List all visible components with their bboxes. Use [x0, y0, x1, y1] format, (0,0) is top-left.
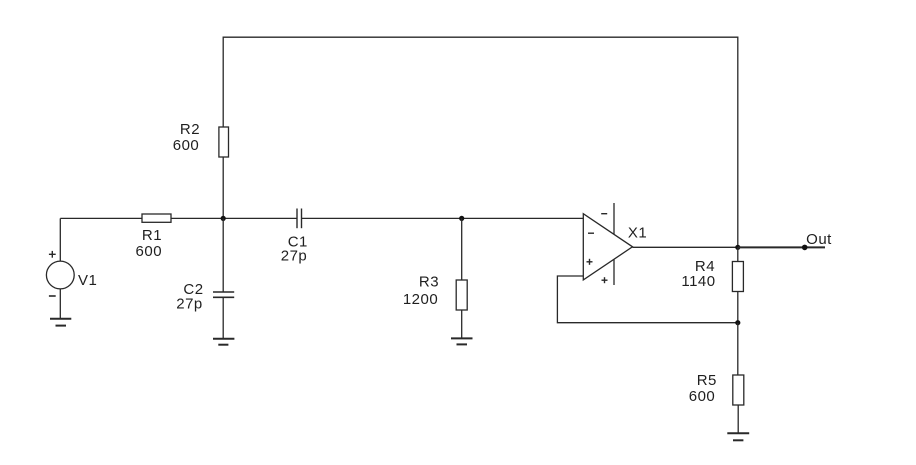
- wire top feedback rail: [223, 37, 738, 247]
- svg-text:1140: 1140: [681, 273, 715, 290]
- svg-text:X1: X1: [628, 225, 647, 242]
- capacitor C1: [281, 209, 308, 265]
- ground (V1): [50, 319, 71, 326]
- node D junction dot: [735, 245, 740, 250]
- svg-text:R2: R2: [180, 121, 200, 138]
- resistor R3: [403, 274, 467, 311]
- ground (R5): [727, 433, 749, 440]
- wire Out net: [738, 246, 825, 248]
- source V1: [46, 251, 97, 296]
- wire R5 to ground: [737, 405, 739, 433]
- node B junction dot: [459, 216, 464, 221]
- wire R2 bottom to node A: [222, 157, 224, 218]
- svg-text:27p: 27p: [281, 247, 308, 264]
- svg-text:600: 600: [173, 137, 200, 154]
- wire V1 to ground: [59, 289, 61, 319]
- svg-text:V1: V1: [78, 272, 97, 289]
- wire feedback from non-inverting input to node C: [557, 276, 737, 323]
- wire C2 to ground: [222, 297, 224, 338]
- wire R4 to node C: [737, 292, 739, 323]
- svg-text:R5: R5: [697, 372, 717, 389]
- svg-text:R1: R1: [142, 227, 162, 244]
- resistor R1: [136, 214, 171, 260]
- node A junction dot: [221, 216, 226, 221]
- capacitor C2: [176, 281, 234, 313]
- wire node B to R3: [461, 218, 463, 280]
- node C junction dot: [735, 320, 740, 325]
- svg-text:600: 600: [689, 388, 716, 405]
- resistor R2: [173, 121, 229, 157]
- resistor R5: [689, 372, 744, 405]
- wire node C to R5: [737, 323, 739, 375]
- svg-text:1200: 1200: [403, 291, 438, 308]
- wire op-amp output to node D: [633, 246, 738, 248]
- pin V- stub (bottom) of X1: [602, 260, 615, 285]
- svg-text:Out: Out: [806, 231, 832, 248]
- wire R3 to ground: [461, 310, 463, 338]
- svg-text:600: 600: [136, 243, 163, 260]
- wire node D to R4: [737, 247, 739, 261]
- svg-text:R3: R3: [419, 274, 439, 291]
- wire main input net (left segment): [60, 217, 142, 219]
- ground (R3): [451, 338, 473, 344]
- resistor R4: [681, 258, 743, 292]
- wire R1 to C1: [171, 217, 297, 219]
- op-amp X1: [583, 214, 647, 280]
- wire node A to C2: [222, 218, 224, 292]
- node Out terminal dot: [802, 245, 808, 251]
- ground (C2): [213, 339, 234, 345]
- svg-text:27p: 27p: [176, 296, 203, 313]
- pin V+ stub (top) of X1: [601, 203, 614, 234]
- wire V1 rail: [59, 218, 61, 261]
- wire C1 to op-amp inverting input (node B on it): [302, 217, 584, 219]
